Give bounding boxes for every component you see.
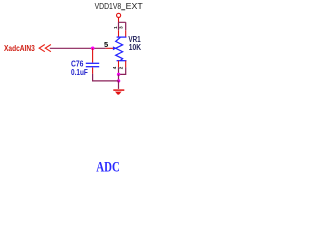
wire capacitor to ground net [93,74,119,81]
svg-text:EXT: EXT [126,2,143,11]
off-page connector XadcAIN3 [39,45,51,52]
svg-text:3: 3 [119,26,124,29]
junction with capacitor wire [117,79,120,82]
power symbol VDD1V8_EXT circle [117,13,121,17]
svg-text:10K: 10K [129,42,142,52]
svg-text:VDD1V8: VDD1V8 [95,2,122,11]
svg-text:XadcAIN3: XadcAIN3 [4,44,35,53]
svg-text:0.1uF: 0.1uF [71,68,88,77]
wire XadcAIN3 to wiper pin [50,47,106,49]
capacitor C76 [92,48,94,62]
potentiometer VR1 body [116,37,127,61]
VR1 wiper arrow [113,46,117,50]
VR1 top bar [117,36,127,38]
svg-text:2: 2 [118,66,123,69]
ground [113,90,124,94]
pin 4 of VR1 (bottom-left) [118,61,120,68]
svg-text:1: 1 [113,26,118,29]
pin 5 of VR1 (wiper) [106,47,113,49]
junction with capacitor [91,47,95,51]
svg-text:4: 4 [112,66,117,69]
wire down to cap junction [118,74,120,81]
VR1 bottom bar [117,60,127,62]
pin 3 of VR1 (top-right) [125,30,127,37]
svg-text:5: 5 [104,40,108,49]
VR1 zigzag [116,37,123,60]
junction at VR1 bottom [117,73,120,76]
wire down to ground symbol [118,81,120,89]
pin 1 of VR1 (top-left) [118,30,120,37]
wire VR1 bottom pins to ground net [119,67,126,74]
pin 2 of VR1 (bottom-right) [125,61,127,68]
svg-text:ADC: ADC [96,160,120,175]
wire power rail to VR1 top pins [119,22,126,30]
